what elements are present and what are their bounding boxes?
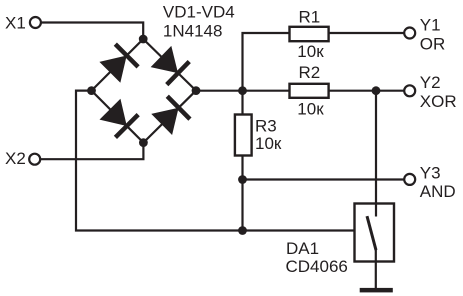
wire R3 branch (bus down to control line) [241,91,243,231]
ground [360,288,393,293]
svg-text:10к: 10к [255,134,282,153]
svg-text:R1: R1 [299,7,321,26]
svg-text:10к: 10к [297,99,324,118]
svg-text:VD1-VD4: VD1-VD4 [163,3,235,22]
diode VD3 (left node to bottom node) [99,98,139,138]
wire bridge edge bottom-left [92,91,144,143]
junction bus / control line [238,226,247,235]
junction node bridge right [192,86,201,95]
svg-text:Y3: Y3 [420,163,441,182]
svg-text:XOR: XOR [420,92,457,111]
terminal Y3 [404,174,415,185]
svg-text:R3: R3 [255,117,277,136]
svg-text:AND: AND [420,182,456,201]
svg-text:OR: OR [420,35,446,54]
svg-text:1N4148: 1N4148 [163,22,223,41]
junction Y2 row / control vertical [372,86,381,95]
wire R1 branch (bus up and across to Y1) [243,33,404,91]
wire X2 to bridge bottom node [41,143,144,160]
wire control vertical into DA1 [375,91,377,216]
svg-text:X1: X1 [5,14,26,33]
switch box DA1 [355,204,395,262]
wire bridge edge top-left [92,39,144,91]
svg-text:R2: R2 [299,63,321,82]
wire DA1 to ground [375,250,377,288]
junction bus / Y3 row [238,175,247,184]
terminal Y1 [404,28,415,39]
diode VD4 (bottom node to right node) [150,96,190,136]
junction node bridge top [139,35,148,44]
wire bridge edge bottom-right [143,91,196,143]
svg-text:Y1: Y1 [420,16,441,35]
resistor R1 [290,27,329,41]
junction bus / R2 row [238,86,247,95]
wire Y3 output line [243,178,404,180]
svg-text:Y2: Y2 [420,73,441,92]
wire bridge edge top-right [143,39,196,91]
switch lever [367,216,376,250]
diode VD2 (top node to right node) [150,45,190,85]
svg-text:X2: X2 [5,149,26,168]
resistor R2 [290,84,329,98]
svg-text:DA1: DA1 [286,239,319,258]
svg-text:CD4066: CD4066 [286,257,348,276]
junction node bridge left [87,86,96,95]
wire right node to Y2 output [196,90,403,92]
wire left node down and right to DA1 control input [76,91,355,231]
junction node bridge bottom [139,138,148,147]
terminal X2 [29,154,40,165]
resistor R3 [235,115,252,156]
terminal X1 [30,17,41,28]
terminal Y2 [404,85,415,96]
svg-text:10к: 10к [297,42,324,61]
wire X1 to bridge top node [41,23,143,40]
diode VD1 (left node to top node) [98,44,138,84]
